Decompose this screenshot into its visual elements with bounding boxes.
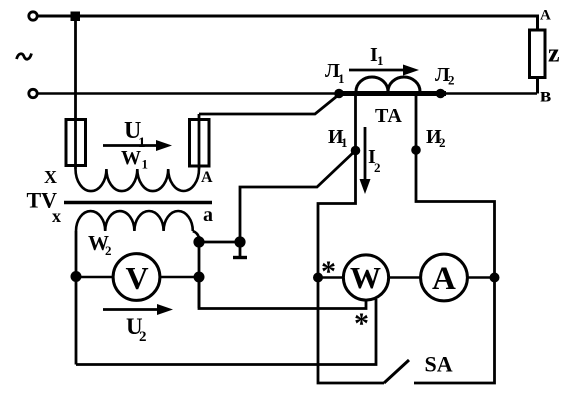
wire ground node to I1 terminal [240, 151, 356, 243]
svg-text:ТА: ТА [375, 105, 402, 127]
arrow I1 [349, 69, 407, 72]
node grounding point 1 [234, 236, 245, 247]
svg-text:1: 1 [341, 135, 348, 150]
wire voltmeter left [76, 276, 113, 279]
svg-text:1: 1 [377, 53, 384, 68]
fuse FU1 [66, 120, 86, 166]
svg-text:x: x [52, 206, 61, 226]
TV core [64, 201, 212, 205]
svg-text:z: z [548, 39, 560, 68]
wire wattmeter left [318, 276, 344, 279]
wire ammeter right [467, 276, 495, 279]
wire I1 terminal to wattmeter current coil [318, 96, 384, 383]
wire bottom link TV-x to wattmeter voltage coil [76, 299, 376, 365]
svg-text:A: A [540, 8, 551, 24]
node voltmeter left [71, 271, 82, 282]
CT TA primary thick bar [335, 91, 446, 96]
svg-text:*: * [354, 307, 369, 340]
svg-text:SA: SA [425, 352, 453, 377]
wire secondary a connector [193, 231, 199, 238]
load Z [530, 30, 546, 78]
arrow U2 [103, 308, 160, 311]
wire load bottom [536, 78, 539, 94]
wire TV primary X lead through fuse [74, 16, 77, 169]
fuse FU2 [190, 120, 210, 167]
wire TV secondary x lead down [75, 231, 78, 365]
wire TV primary A to L1 node [199, 95, 339, 115]
switch SA arm [384, 360, 409, 383]
svg-text:2: 2 [105, 243, 112, 258]
svg-text:2: 2 [439, 135, 446, 150]
wire wattmeter to ammeter [389, 276, 422, 279]
wire voltmeter right [160, 276, 199, 279]
wire lower bus line 2 left part [38, 92, 337, 95]
node ammeter right [490, 273, 500, 283]
terminal T1 [29, 12, 37, 20]
svg-text:1: 1 [338, 71, 345, 86]
svg-text:2: 2 [374, 160, 381, 175]
svg-text:*: * [321, 255, 336, 288]
svg-text:a: a [203, 204, 213, 226]
terminal T2 [29, 89, 37, 97]
AC source symbol ~ [17, 54, 32, 60]
svg-text:2: 2 [139, 329, 147, 345]
svg-text:V: V [126, 260, 149, 296]
wire top bus line 1 [38, 16, 538, 30]
wire lower bus line 2 right part [445, 92, 537, 95]
ground stub [239, 242, 242, 256]
winding W2 TV secondary [76, 211, 193, 231]
wattmeter W [343, 255, 388, 300]
arrow U1 [103, 144, 160, 147]
wire I2 terminal to ammeter right node [414, 96, 495, 383]
node junction on top bus [71, 12, 81, 22]
voltmeter V [113, 254, 160, 301]
node L1 [334, 89, 344, 99]
node I1 [351, 146, 361, 156]
CT TA secondary arcs [356, 77, 420, 92]
svg-text:A: A [432, 261, 456, 297]
svg-text:в: в [540, 83, 551, 107]
svg-text:A: A [201, 169, 213, 186]
wire to grounding point [199, 241, 240, 244]
svg-text:2: 2 [448, 73, 455, 88]
svg-text:W: W [350, 260, 381, 295]
node TV secondary a / ground link [193, 236, 204, 247]
wire TV primary A lead through fuse [198, 114, 201, 169]
ammeter A [421, 254, 468, 301]
node voltmeter right [194, 272, 205, 283]
svg-text:W: W [121, 147, 141, 169]
winding W1 TV primary [76, 169, 200, 191]
node wattmeter left [313, 273, 323, 283]
wire secondary a to wattmeter voltage terminal [199, 277, 366, 309]
node I2 [411, 145, 421, 155]
arrow I2 [364, 127, 367, 183]
wire TV secondary a lead down [198, 236, 201, 308]
node L2 [436, 89, 446, 99]
svg-text:1: 1 [142, 157, 149, 172]
svg-text:X: X [44, 167, 57, 187]
